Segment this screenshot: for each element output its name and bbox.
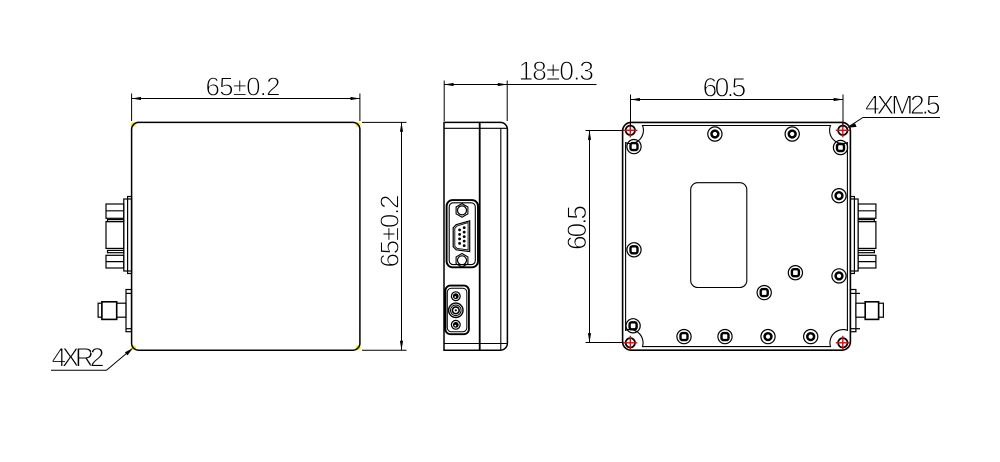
side view: coax center pin bbox=[455, 309, 457, 311]
side view: connector bottom contact ring bbox=[451, 320, 460, 329]
svg-text:60.5: 60.5 bbox=[562, 205, 592, 250]
side view: connector top contact ring bbox=[451, 292, 460, 301]
dimension 65±0.2 horizontal: dimension line bbox=[132, 98, 360, 100]
dimension 65±0.2 vertical: dimension line bbox=[401, 122, 403, 350]
rear view: corner screw M2.5 top-left with red center mark bbox=[623, 123, 637, 137]
dimension 18±0.3: left extension line bbox=[443, 81, 445, 122]
dimension 65±0.2 horizontal: left arrowhead bbox=[132, 97, 141, 100]
side view: outline with rounded right corners bbox=[444, 122, 507, 350]
front view: DB9 connector side profile, lower collar bbox=[108, 250, 124, 252]
front view: enclosure body outline 65x65 rounded corners R2 bbox=[132, 122, 360, 350]
front view: corner highlight mark top-right bbox=[356, 122, 361, 127]
dimension 65±0.2 vertical: top extension line bbox=[362, 121, 407, 123]
front view: SMA connector side profile, flange bbox=[126, 290, 132, 332]
front view: corner highlight mark bottom-right bbox=[356, 345, 361, 350]
side view: connector bottom contact center bbox=[453, 322, 459, 328]
dimension 65±0.2 vertical: bottom arrowhead bbox=[400, 341, 403, 350]
svg-text:60.5: 60.5 bbox=[703, 73, 747, 103]
front view: SMA connector side profile, hex nut bbox=[102, 302, 117, 320]
dimension 60.5 horizontal: left arrowhead bbox=[631, 98, 640, 101]
dimension 60.5 horizontal: left extension line bbox=[630, 95, 632, 127]
dimension 60.5 horizontal: dimension line bbox=[631, 99, 844, 101]
rear view: inner screw lower bbox=[757, 286, 771, 300]
side view: SMA/power connector outer bezel bbox=[445, 286, 469, 335]
label 4XR2: leader underline bbox=[51, 369, 107, 371]
rear view: SMA connector side profile, hex nut bbox=[865, 302, 878, 320]
rear view: DB9 connector side profile, upper collar bbox=[858, 220, 874, 222]
side view: top lid seam line bbox=[444, 127, 507, 129]
side view: DB9 connector outer bezel bbox=[447, 200, 478, 267]
rear view: SMA connector side profile, tip bbox=[879, 303, 884, 317]
rear view: DB9 connector side profile, shell body bbox=[858, 222, 876, 249]
dimension 18±0.3: right extension line bbox=[506, 81, 508, 122]
side view: coax inner ring bbox=[452, 307, 459, 314]
dimension 65±0.2 horizontal: right arrowhead bbox=[351, 97, 360, 100]
dimension 65±0.2 vertical: top arrowhead bbox=[400, 122, 403, 131]
side view: DB9 pins (9) bbox=[458, 226, 465, 247]
side view: DB9 lower jack screw bushing bbox=[458, 256, 467, 265]
dimension 18±0.3: dimension line extended under text bbox=[444, 84, 596, 86]
front view: DB9 connector side profile, mounting tab bbox=[128, 197, 132, 274]
rear view: DB9 connector side profile, lower jack screw block bbox=[858, 255, 876, 268]
side view: DB9 D-shell inner outline bbox=[455, 223, 468, 250]
rear view: rounded rectangular recess cutout bbox=[691, 183, 747, 288]
dimension 60.5 vertical: bottom extension line bbox=[586, 342, 623, 344]
rear view: inner lid outline with corner screw pockets bbox=[626, 126, 848, 347]
rear view: lid screw right edge upper bbox=[832, 189, 846, 203]
rear view: corner screw M2.5 bottom-left with red center mark bbox=[623, 336, 637, 350]
rear view: lid screw right edge lower bbox=[832, 269, 846, 283]
rear view: inner screw upper bbox=[788, 266, 802, 280]
front view: SMA connector side profile, tip bbox=[98, 303, 102, 317]
svg-text:4XR2: 4XR2 bbox=[52, 343, 105, 373]
label 4XM2.5: leader diagonal bbox=[850, 118, 863, 127]
front view: DB9 connector side profile, flange bbox=[124, 199, 132, 271]
svg-text:4XM2.5: 4XM2.5 bbox=[865, 90, 941, 120]
side view: coax center hex nut ring bbox=[449, 303, 463, 317]
rear view: lid screw bottom edge 4 bbox=[804, 330, 818, 344]
front view: DB9 connector side profile, lower jack screw block bbox=[106, 255, 124, 268]
front view: DB9 connector side profile, shell body bbox=[106, 222, 124, 249]
dimension 65±0.2 horizontal: right extension line bbox=[359, 94, 361, 122]
dimension 60.5 vertical: top extension line bbox=[586, 130, 623, 132]
rear view: lid screw upper-left bbox=[627, 140, 641, 154]
side view: front face parting line bbox=[479, 122, 481, 350]
rear view: lid screw lower-left bbox=[626, 319, 640, 333]
rear view: corner screw M2.5 top-right with red center mark bbox=[836, 123, 850, 137]
side view: coax middle ring bbox=[451, 305, 462, 316]
dimension 60.5 horizontal: right extension line bbox=[842, 95, 844, 127]
dimension 65±0.2 vertical: bottom extension line bbox=[362, 349, 407, 351]
rear view: lid screw left-middle bbox=[627, 243, 641, 257]
front view: corner highlight mark top-left bbox=[131, 122, 136, 127]
rear view: DB9 connector side profile, lower collar bbox=[858, 250, 874, 252]
label 4XM2.5: leader underline bbox=[863, 117, 940, 119]
front view: corner highlight mark bottom-left bbox=[131, 345, 136, 350]
side view: DB9 lower jack screw hex nut bbox=[456, 254, 468, 268]
dimension 18±0.3: left arrowhead bbox=[444, 83, 453, 86]
side view: rear lid parting line bbox=[500, 128, 502, 350]
front view: SMA connector side profile, stem bbox=[117, 303, 126, 317]
dimension 60.5 horizontal: right arrowhead bbox=[834, 98, 843, 101]
side view: DB9 upper jack screw bushing bbox=[458, 206, 467, 215]
front view: DB9 connector side profile, upper jack screw block bbox=[106, 204, 124, 218]
front view: DB9 connector side profile, upper collar bbox=[108, 220, 124, 222]
svg-text:65±0.2: 65±0.2 bbox=[375, 195, 405, 268]
rear view: DB9 connector side profile, flange bbox=[850, 199, 858, 271]
rear view: lid screw top edge 2 bbox=[785, 127, 799, 141]
label 4XM2.5: leader arrowhead at corner screw bbox=[847, 123, 857, 128]
rear view: lid screw bottom edge 2 bbox=[718, 330, 732, 344]
rear view: DB9 connector side profile, mounting tab bbox=[850, 197, 854, 274]
dimension 18±0.3: right arrowhead bbox=[498, 83, 507, 86]
rear view: SMA connector side profile, flange bbox=[850, 290, 860, 332]
dimension 60.5 vertical: top arrowhead bbox=[588, 131, 591, 140]
side view: SMA/power connector inner bezel bbox=[447, 288, 467, 332]
dimension 60.5 vertical: dimension line bbox=[589, 131, 591, 343]
label 4XR2: leader diagonal bbox=[107, 350, 131, 370]
svg-text:18±0.3: 18±0.3 bbox=[519, 56, 595, 86]
dimension 65±0.2 horizontal: left extension line bbox=[131, 94, 133, 122]
rear view: lid screw top edge 1 bbox=[708, 127, 722, 141]
side view: DB9 D-shell outer outline bbox=[453, 221, 470, 252]
rear view: lid screw bottom edge 3 bbox=[761, 330, 775, 344]
side view: DB9 connector inner bezel bbox=[449, 203, 475, 265]
svg-text:65±0.2: 65±0.2 bbox=[206, 72, 281, 102]
rear view: outer outline bbox=[623, 122, 851, 350]
rear view: lid screw upper-right bbox=[833, 140, 847, 154]
label 4XR2: leader arrowhead at corner radius bbox=[125, 348, 133, 356]
side view: DB9 upper jack screw hex nut bbox=[456, 204, 468, 218]
rear view: corner screw M2.5 bottom-right with red center mark bbox=[836, 336, 850, 350]
rear view: SMA connector side profile, stem bbox=[856, 303, 865, 317]
dimension 60.5 vertical: bottom arrowhead bbox=[588, 333, 591, 342]
rear view: lid screw bottom edge 1 bbox=[677, 330, 691, 344]
rear view: DB9 connector side profile, upper jack screw block bbox=[858, 204, 876, 218]
side view: connector top contact center bbox=[453, 293, 459, 299]
side view: bottom lid seam line bbox=[444, 343, 507, 345]
